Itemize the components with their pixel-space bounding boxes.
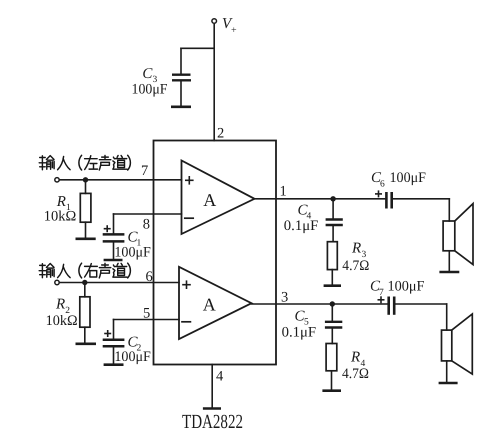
op-amp A2 plus input	[182, 280, 191, 289]
wire pin 4 ground	[211, 365, 213, 408]
speaker LS2	[442, 304, 473, 382]
svg-text:R: R	[56, 194, 66, 210]
svg-text:100μF: 100μF	[388, 278, 425, 294]
op-amp U1 (IC outline)	[154, 141, 277, 365]
label input left channel (chinese)	[39, 155, 130, 170]
svg-text:10kΩ: 10kΩ	[44, 209, 77, 225]
svg-text:3: 3	[281, 290, 288, 306]
wire pin 5	[114, 319, 180, 321]
wire V+ vertical to pin 2	[213, 25, 215, 141]
svg-text:4: 4	[216, 369, 224, 385]
svg-text:7: 7	[379, 288, 384, 298]
wire pin 3 output	[252, 303, 388, 305]
capacitor C2	[103, 320, 125, 364]
svg-text:0.1μF: 0.1μF	[284, 218, 319, 234]
C1 plus sign	[104, 225, 111, 232]
ground under C3	[171, 106, 191, 109]
svg-text:6: 6	[380, 180, 385, 190]
capacitor C1	[103, 214, 125, 259]
svg-text:100μF: 100μF	[132, 82, 168, 98]
svg-text:R: R	[350, 350, 360, 366]
ground under R1	[76, 238, 96, 241]
wire pin 8	[114, 213, 182, 215]
svg-text:4.7Ω: 4.7Ω	[342, 258, 369, 274]
label input right channel (chinese)	[39, 263, 130, 278]
svg-text:100μF: 100μF	[390, 170, 427, 186]
ground under R2	[76, 342, 97, 345]
resistor R2	[80, 283, 90, 343]
svg-text:R: R	[55, 297, 65, 313]
node junction R2	[82, 280, 87, 285]
svg-text:R: R	[351, 241, 361, 257]
wire pin 1 output	[255, 198, 386, 200]
ground under R3	[324, 284, 341, 287]
op-amp A1 minus input	[185, 217, 193, 219]
op-amp A1 plus input	[185, 176, 194, 185]
op-amp A1 triangle	[182, 161, 255, 235]
svg-text:100μF: 100μF	[114, 245, 150, 261]
ground under speaker LS2	[439, 382, 458, 385]
capacitor C6	[386, 192, 391, 209]
capacitor C4	[326, 199, 343, 242]
capacitor C5	[325, 304, 342, 344]
svg-text:1: 1	[280, 184, 287, 200]
node junction C5	[330, 301, 335, 306]
svg-text:A: A	[203, 190, 216, 210]
svg-text:7: 7	[141, 163, 148, 179]
svg-text:100μF: 100μF	[114, 349, 150, 365]
capacitor C7	[389, 297, 395, 315]
capacitor C3	[172, 48, 191, 105]
svg-text:8: 8	[143, 217, 150, 233]
wire pin 7 input left	[60, 179, 182, 181]
ground under C1	[104, 259, 123, 262]
node input terminal left	[55, 178, 59, 182]
wire C6 to speaker	[393, 198, 449, 200]
svg-text:6: 6	[146, 269, 153, 285]
node junction C4	[330, 196, 335, 201]
op-amp A2 minus input	[182, 321, 190, 323]
C7 plus sign	[378, 296, 385, 303]
wire C7 to speaker	[395, 303, 446, 305]
wire pin 6 input right	[60, 282, 180, 284]
svg-text:5: 5	[143, 306, 150, 322]
ground under R4	[322, 389, 341, 392]
node junction R1	[83, 177, 88, 182]
svg-text:0.1μF: 0.1μF	[282, 324, 317, 340]
resistor R3	[327, 242, 337, 285]
resistor R4	[326, 344, 337, 390]
C2 plus sign	[104, 330, 111, 337]
svg-text:A: A	[203, 294, 216, 314]
resistor R1	[80, 180, 91, 238]
node V+ terminal circle	[212, 19, 217, 24]
op-amp A2 triangle	[179, 267, 252, 339]
C6 plus sign	[375, 190, 382, 197]
svg-text:+: +	[231, 25, 237, 36]
svg-text:2: 2	[217, 126, 224, 142]
svg-text:TDA2822: TDA2822	[182, 411, 243, 433]
svg-text:4.7Ω: 4.7Ω	[342, 366, 369, 382]
ground under speaker LS1	[439, 271, 459, 274]
ground pin 4	[203, 407, 221, 410]
svg-text:10kΩ: 10kΩ	[46, 313, 78, 329]
wire branch to C3	[181, 47, 214, 49]
node input terminal right	[55, 280, 59, 284]
speaker LS1	[443, 199, 473, 271]
ground under C2	[104, 363, 124, 366]
